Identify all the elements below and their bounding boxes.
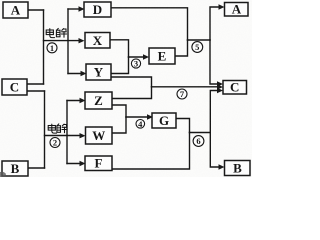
- wire node5 dropper to C-right: [210, 40, 220, 84]
- wire trunk2 upper vertical: [67, 9, 69, 74]
- wire G output to node6: [176, 119, 190, 133]
- box W: [86, 127, 113, 144]
- wire E output to node5: [175, 40, 188, 56]
- wire C-left upper output: [27, 83, 44, 85]
- node 1 circled: [47, 43, 57, 53]
- arrow into C-right from node5: [217, 81, 223, 86]
- wire trunk2 lower vertical: [66, 101, 68, 164]
- wire node6 horizontal: [190, 132, 211, 134]
- arrow into X: [79, 38, 85, 43]
- wire node7 to C-right: [152, 86, 220, 88]
- arrow into E: [143, 54, 149, 59]
- wire D output to node5: [111, 8, 188, 40]
- box Y: [86, 64, 111, 80]
- node 6 circled: [193, 136, 204, 147]
- box G: [152, 113, 176, 128]
- wire branch to Y: [68, 73, 83, 75]
- node 7 circled: [177, 89, 187, 99]
- wire W output to node4: [112, 117, 126, 133]
- wire node5 riser to A-right: [210, 7, 222, 40]
- box C right: [223, 81, 247, 95]
- box A right: [225, 3, 249, 17]
- box B right: [225, 161, 251, 176]
- node 4 circled: [136, 119, 145, 129]
- node 2 circled: [50, 138, 60, 148]
- text dianjie-2: [48, 124, 67, 133]
- node 5 circled: [192, 42, 203, 53]
- wire branch to F: [67, 163, 82, 165]
- wire branch to D: [68, 8, 81, 10]
- smudge bottom-left: [0, 172, 6, 177]
- wire node4 to G: [126, 116, 150, 118]
- box B left: [2, 161, 28, 176]
- node 3 circled: [131, 59, 140, 69]
- box D: [84, 2, 111, 17]
- wire A-left to trunk1: [28, 9, 44, 11]
- arrow into F: [80, 161, 86, 166]
- wire Y output upper: [111, 57, 129, 74]
- arrow into G: [147, 114, 153, 119]
- wire Z output lower to node4: [112, 105, 126, 117]
- wire C-left lower output: [27, 90, 45, 92]
- box C left: [2, 79, 27, 95]
- text dianjie-1: [46, 28, 66, 37]
- wire node3 to E: [129, 56, 146, 58]
- arrow into W: [80, 133, 86, 138]
- wire trunk1 upper vertical: [43, 10, 45, 84]
- scan noise overlay: [0, 0, 252, 177]
- node electrolysis-1 horizontal to X: [44, 40, 82, 42]
- arrow into D: [79, 6, 85, 11]
- arrow into C-right from node7: [217, 84, 223, 89]
- box E: [149, 48, 175, 64]
- wire node6 riser to C-right: [210, 91, 219, 133]
- wire node5 horizontal: [188, 39, 211, 41]
- wire B-left to trunk1: [28, 167, 45, 169]
- wire Z output upper to node7: [112, 87, 152, 99]
- wire F output to node6: [112, 133, 190, 170]
- arrow into B-right: [219, 164, 225, 169]
- arrow into C-right from node6: [217, 88, 223, 93]
- arrow into Z: [80, 98, 86, 103]
- arrow into A-right: [219, 4, 225, 9]
- arrow into Y: [81, 71, 87, 76]
- wire branch to Z: [67, 100, 82, 102]
- box A left: [3, 2, 28, 18]
- wire trunk1 lower vertical: [44, 91, 46, 168]
- wire X output: [110, 40, 129, 57]
- wire node6 dropper to B-right: [210, 133, 221, 168]
- node electrolysis-2 horizontal to W: [45, 135, 83, 137]
- box Z: [85, 92, 112, 109]
- box F: [85, 156, 112, 171]
- wire Y output lower to node7: [111, 77, 152, 87]
- box X: [85, 33, 110, 49]
